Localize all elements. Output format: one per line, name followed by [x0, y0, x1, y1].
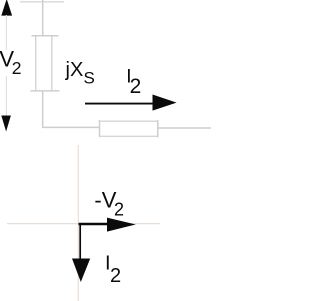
voltage arrow V2 : stem upper segment: [5, 15, 7, 50]
wire: horizontal from corner to resistor box: [42, 126, 100, 128]
current arrow I2 (top) : arrowhead: [153, 95, 177, 111]
svg-text:2: 2: [114, 199, 124, 219]
current arrow I2 (top) : shaft: [85, 103, 156, 105]
wire: top horizontal bus: [20, 1, 64, 3]
phasor arrow I2 : arrowhead: [72, 259, 90, 283]
svg-text:2: 2: [130, 75, 142, 98]
svg-text:S: S: [84, 69, 95, 88]
label I2 (current phasor): [105, 252, 121, 287]
label I2 (top current): [126, 67, 141, 98]
label -V2 (negative secondary voltage phasor): [94, 188, 124, 220]
wire: below impedance down to corner: [42, 91, 44, 128]
phasor arrow -V2 : arrowhead: [107, 218, 136, 232]
wire: from resistor box to right edge: [159, 127, 212, 129]
phasor diagram vertical axis: [77, 145, 79, 301]
voltage arrow V2 : up arrowhead: [1, 0, 12, 16]
resistor load box: [100, 120, 158, 137]
label V2 (secondary voltage): [0, 47, 22, 78]
svg-text:jX: jX: [65, 59, 84, 81]
voltage arrow V2 : stem lower segment: [5, 76, 7, 116]
phasor arrow -V2 : shaft: [79, 223, 113, 225]
impedance box jXs (series reactance): [31, 36, 60, 91]
phasor arrow I2 : shaft: [79, 224, 81, 263]
svg-text:2: 2: [12, 58, 22, 78]
phasor diagram horizontal axis: [7, 223, 160, 225]
svg-text:2: 2: [110, 265, 121, 287]
wire: vertical from top bus into impedance: [42, 0, 44, 36]
voltage arrow V2 : down arrowhead: [1, 116, 11, 132]
label jXs value: [65, 59, 95, 88]
